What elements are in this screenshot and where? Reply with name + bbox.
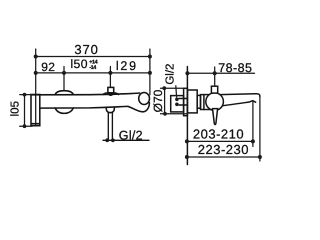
svg-text:l05: l05 bbox=[10, 101, 22, 116]
node: dot row2 at 92/150 bbox=[62, 71, 66, 75]
wire: extension line A (left end of 370) bbox=[35, 49, 37, 125]
node: dot 223-230 left bbox=[185, 155, 189, 159]
node: right mount small center boss bbox=[109, 93, 113, 95]
node: left wall elbow housing bbox=[31, 95, 40, 126]
node: dot 370 left bbox=[34, 55, 38, 59]
node: escutcheon flange side bbox=[187, 90, 197, 113]
wire: body inner ring line bbox=[203, 95, 205, 110]
node: G1/2 side dot upper bbox=[175, 98, 179, 102]
node: 105 dot bottom bbox=[23, 124, 27, 128]
svg-text:92: 92 bbox=[41, 60, 55, 74]
side dims group bbox=[161, 67, 260, 161]
node: G1/2 side dot lower bbox=[175, 103, 179, 107]
node: dot 370 right bbox=[148, 55, 152, 59]
wire: bar bottom edge bbox=[40, 106, 128, 108]
wire: down pipe left line bbox=[107, 113, 109, 139]
node: dot row2 right bbox=[148, 71, 152, 75]
wire: down pipe right line bbox=[111, 113, 113, 139]
node: dot 223-230 right bbox=[258, 155, 262, 159]
wire: extension line C (left inlet, 92/150 boundary) bbox=[63, 67, 65, 91]
wire: in-wall pipe stub bottom bbox=[179, 104, 187, 106]
wire: 105 top leader stub bbox=[20, 94, 32, 96]
wire: 105 bottom leader stub bbox=[20, 125, 32, 127]
node: dot 203-210 left bbox=[185, 139, 189, 143]
node: handle sphere bbox=[206, 93, 224, 111]
svg-text:l50: l50 bbox=[70, 57, 87, 71]
node: wall plate tall bbox=[184, 88, 188, 115]
node: lever blade bbox=[213, 109, 218, 125]
node: right mount square knob bbox=[108, 87, 114, 93]
node: 223-230 dimension line bbox=[187, 156, 260, 158]
node: dot 78-85 left bbox=[185, 71, 189, 75]
wire: G1/2 leader line front bbox=[103, 139, 149, 141]
node: 105 dot top bbox=[23, 93, 27, 97]
node: spout tip underside curve bbox=[128, 103, 149, 112]
svg-text:-14: -14 bbox=[89, 65, 96, 71]
node: 203-210 dimension line bbox=[187, 140, 253, 142]
svg-text:l29: l29 bbox=[116, 59, 138, 73]
node: neck ring bbox=[197, 95, 200, 108]
wire: extension line B (right end of 370) bbox=[149, 49, 151, 95]
node: 78-85 dimension line bbox=[187, 72, 254, 74]
wire: O70 top stub bbox=[161, 87, 185, 89]
wire: in-wall pipe stub top bbox=[179, 98, 187, 100]
front view body group bbox=[31, 87, 150, 125]
svg-text:203-210: 203-210 bbox=[193, 127, 244, 142]
node: mixer body side bbox=[201, 95, 212, 110]
svg-text:Gl/2: Gl/2 bbox=[165, 64, 177, 85]
node: left inlet flange lower dome bbox=[55, 108, 73, 113]
105 dimension group bbox=[20, 95, 32, 127]
node: dot row2 left bbox=[34, 71, 38, 75]
node: G1/2 dot left bbox=[105, 138, 109, 142]
wire: extension line D (150/129 boundary) bbox=[109, 67, 111, 88]
node: dot 78-85 right bbox=[213, 71, 217, 75]
node: spout side profile top bbox=[220, 94, 260, 97]
svg-text:Gl/2: Gl/2 bbox=[119, 128, 143, 142]
node: G1/2 dot right bbox=[111, 138, 115, 142]
wire: 78-85 extension at handle axis bbox=[214, 67, 216, 86]
node: spout outlet circle bbox=[139, 93, 150, 105]
node: dimension line 370 bbox=[36, 56, 150, 58]
node: dot O70 top bbox=[162, 86, 166, 90]
wire: extension spout tip 223-230 bbox=[259, 96, 261, 162]
node: hose collar under bar bbox=[106, 108, 114, 113]
node: left inlet flange upper dome bbox=[55, 91, 73, 95]
side view group bbox=[171, 67, 260, 165]
node: in-wall connection box bbox=[171, 96, 184, 112]
wire: extension spout outlet 203-210 bbox=[252, 102, 254, 147]
node: dot 203-210 right bbox=[251, 139, 255, 143]
wire: wall line bbox=[186, 67, 188, 165]
svg-text:Ø70: Ø70 bbox=[151, 89, 165, 112]
node: dot row2 at 150/129 bbox=[108, 71, 112, 75]
wire: housing inner bottom line bbox=[31, 123, 39, 125]
wire: bar top edge bbox=[31, 93, 140, 95]
node: dot O70 bottom bbox=[163, 112, 167, 116]
svg-text:78-85: 78-85 bbox=[218, 61, 252, 75]
wire: G1/2 side leader bbox=[175, 86, 178, 97]
node: dimension line 92/150/129 bbox=[36, 72, 150, 74]
svg-text:223-230: 223-230 bbox=[198, 142, 249, 157]
svg-text:370: 370 bbox=[74, 42, 98, 57]
node: handle knob cap bbox=[211, 86, 217, 93]
node: right mount bell flange bbox=[103, 93, 118, 95]
node: O70 dimension line vertical bbox=[164, 88, 166, 114]
wire: O70 bottom stub bbox=[161, 113, 188, 115]
node: 105 dimension line vertical bbox=[24, 95, 26, 127]
node: spout underside slope bbox=[220, 101, 256, 106]
